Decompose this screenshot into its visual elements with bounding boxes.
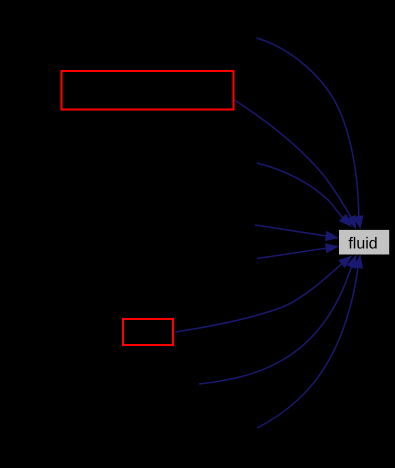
edge C (node to fluid) <box>257 163 352 227</box>
edge A (top node to fluid) <box>257 38 364 229</box>
edge E (node to fluid) <box>257 243 339 258</box>
red node 1 (truncated node box) <box>62 71 234 110</box>
edge F (red node 2 to fluid) <box>175 256 353 332</box>
edge G (node to fluid) <box>199 255 356 384</box>
red node 2 (truncated node box) <box>123 319 173 345</box>
node fluid (current node, gray box) <box>339 230 389 255</box>
edge H (node to fluid) <box>257 255 363 428</box>
svg-text:fluid: fluid <box>348 235 377 252</box>
edge B (red node 1 to fluid) <box>235 100 357 229</box>
edge D (node to fluid) <box>255 225 339 241</box>
